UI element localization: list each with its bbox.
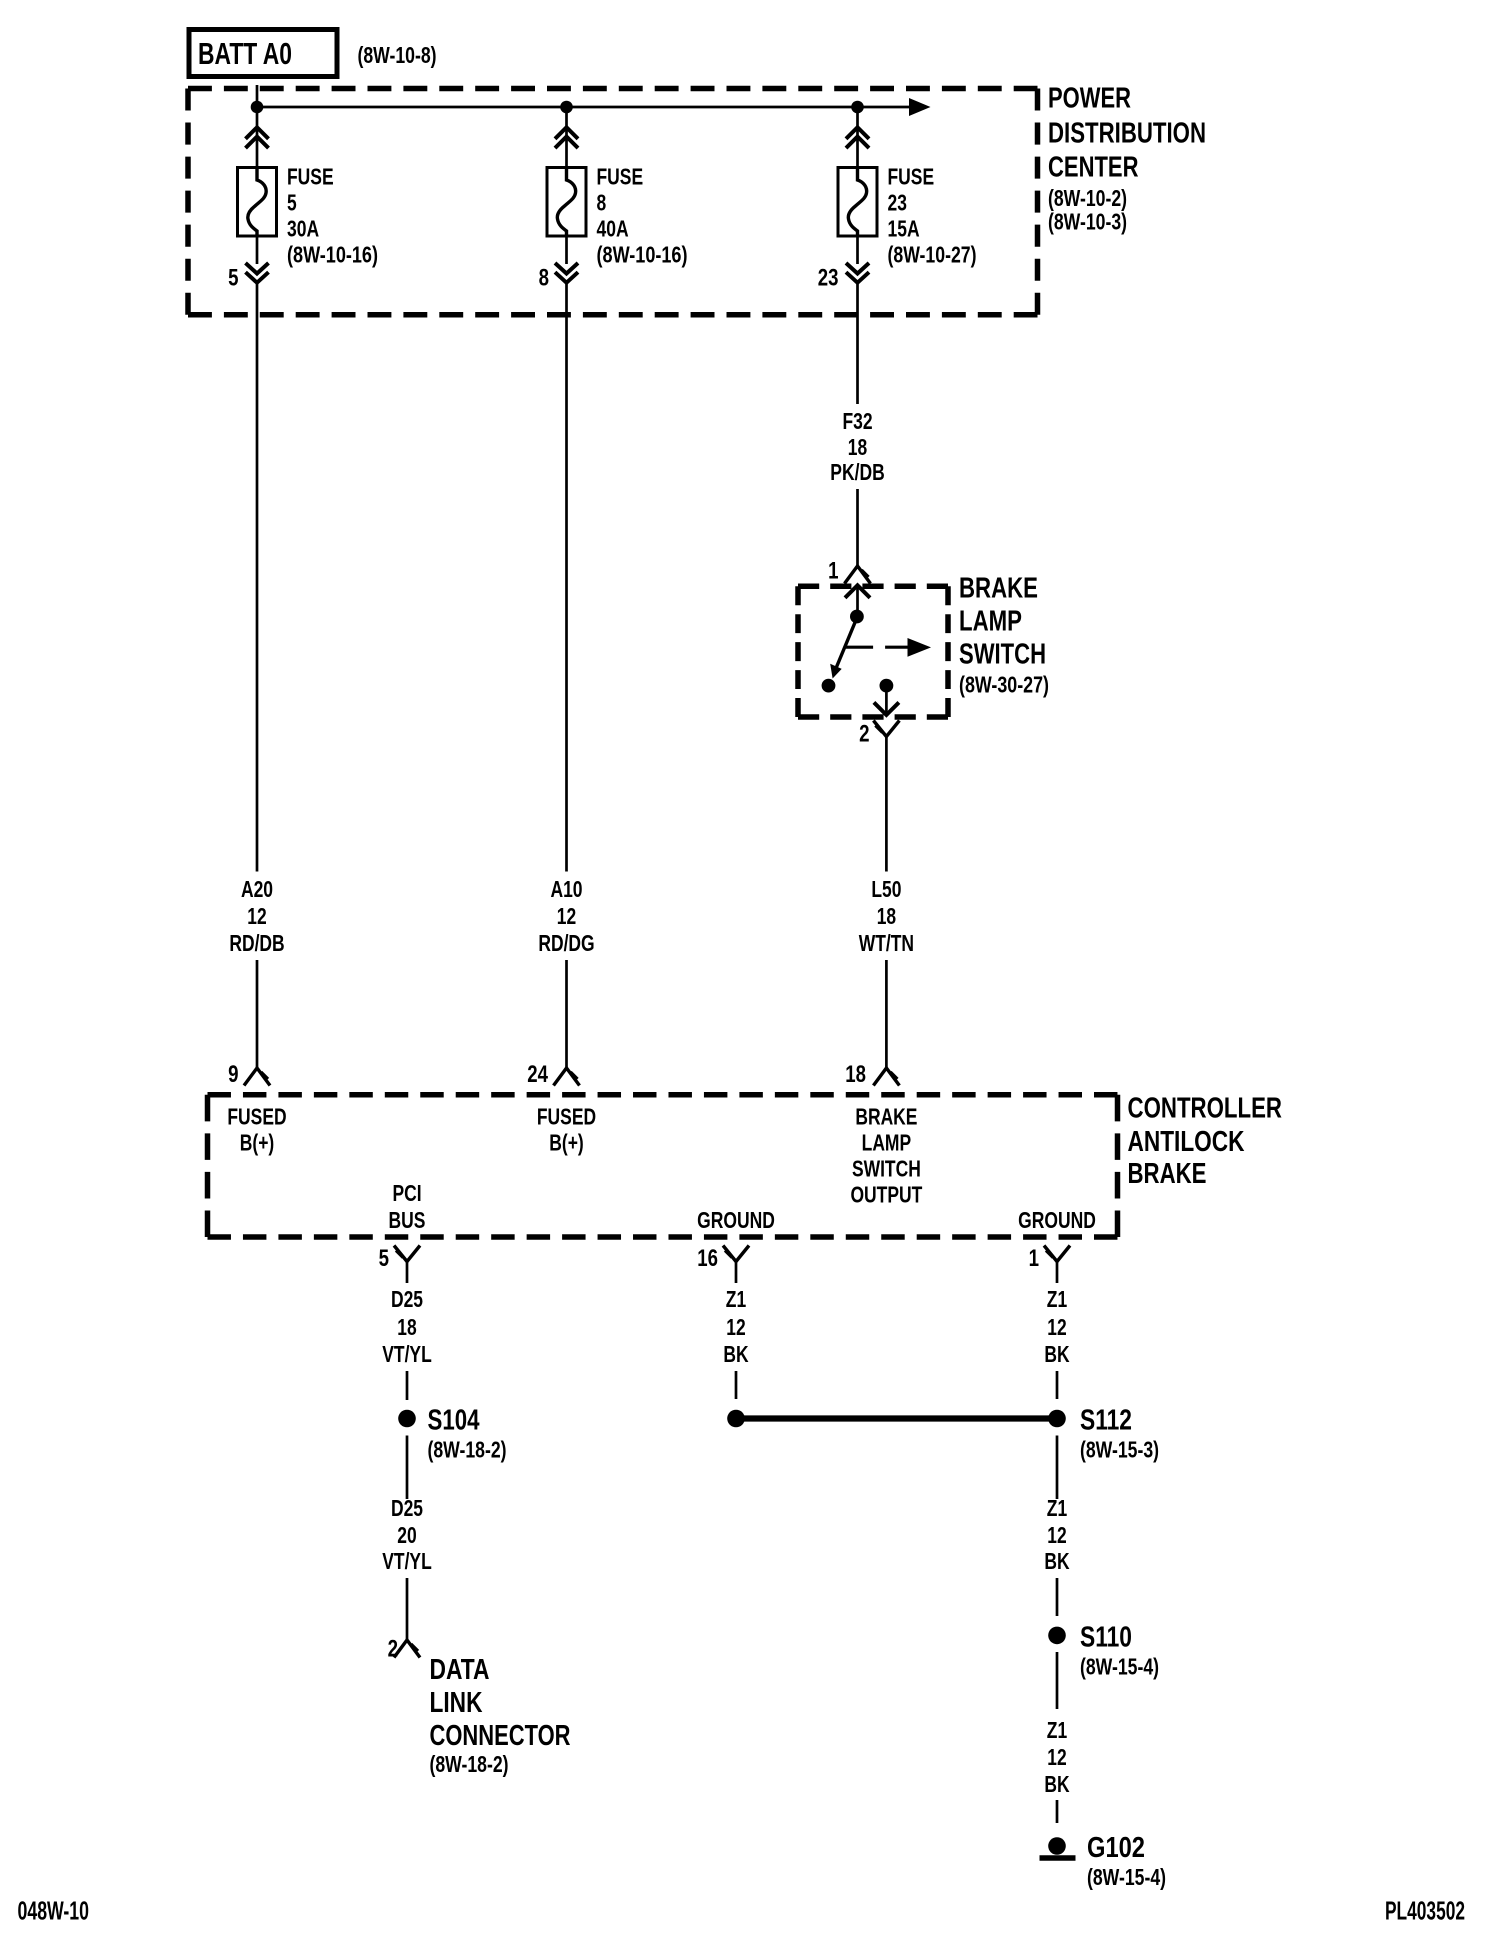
svg-text:1: 1 — [1029, 1245, 1039, 1272]
pin number 16 — [697, 1245, 718, 1272]
splice S104 — [398, 1410, 416, 1428]
CAB internal label GROUND pin 16 — [697, 1207, 775, 1233]
pin 9 connector at CAB — [244, 1068, 270, 1086]
svg-text:40A: 40A — [597, 216, 629, 242]
svg-text:BUS: BUS — [389, 1207, 426, 1233]
brake lamp switch dashed box — [798, 586, 948, 717]
svg-text:CONNECTOR: CONNECTOR — [430, 1720, 571, 1752]
svg-text:CENTER: CENTER — [1048, 152, 1139, 184]
pin number 18 — [845, 1061, 866, 1088]
svg-text:BK: BK — [1044, 1341, 1069, 1367]
CAB internal label PCI BUS — [389, 1180, 426, 1233]
label G102 (8W-15-4) — [1087, 1832, 1166, 1890]
svg-text:20: 20 — [397, 1522, 416, 1548]
wire Z1 to splice S110 — [1056, 1578, 1059, 1616]
svg-text:5: 5 — [287, 190, 297, 216]
svg-text:B(+): B(+) — [549, 1130, 584, 1156]
svg-text:(8W-18-2): (8W-18-2) — [430, 1751, 509, 1777]
svg-text:DISTRIBUTION: DISTRIBUTION — [1048, 118, 1206, 150]
wire F32 to brake lamp switch pin 1 — [856, 489, 859, 566]
pin 18 connector at CAB — [873, 1068, 899, 1086]
label FUSE 5 30A (8W-10-16) — [287, 164, 378, 268]
svg-text:8: 8 — [539, 265, 549, 292]
svg-text:DATA: DATA — [430, 1654, 490, 1686]
svg-text:5: 5 — [379, 1245, 389, 1272]
pin number 1 — [828, 558, 838, 585]
svg-text:8: 8 — [597, 190, 607, 216]
label FUSE 23 15A (8W-10-27) — [888, 164, 977, 268]
svg-text:B(+): B(+) — [240, 1130, 275, 1156]
svg-text:23: 23 — [888, 190, 907, 216]
wire Z1 to ground G102 — [1056, 1800, 1059, 1823]
pin 1 connector at brake lamp switch — [845, 566, 871, 584]
svg-text:12: 12 — [726, 1314, 745, 1340]
svg-text:D25: D25 — [391, 1495, 423, 1521]
fuse 23 15A — [838, 167, 877, 237]
svg-text:(8W-18-2): (8W-18-2) — [428, 1437, 507, 1463]
wire Z1 pin 16 down to splice junction — [735, 1371, 738, 1399]
svg-text:BRAKE: BRAKE — [959, 573, 1038, 605]
ground jumper wire to S112 — [736, 1415, 1057, 1421]
label FUSE 8 40A (8W-10-16) — [597, 164, 688, 268]
pin 1 connector below CAB — [1044, 1246, 1070, 1284]
pin number 24 — [527, 1061, 548, 1088]
wire label Z1 12 BK (pin 16) — [723, 1286, 748, 1367]
svg-text:G102: G102 — [1087, 1832, 1145, 1864]
svg-text:FUSE: FUSE — [597, 164, 644, 190]
reference (8W-10-8) — [358, 42, 437, 68]
splice S110 — [1048, 1627, 1066, 1645]
svg-text:BATT A0: BATT A0 — [198, 36, 292, 71]
CAB internal label GROUND pin 1 — [1018, 1207, 1096, 1233]
svg-text:12: 12 — [1047, 1744, 1066, 1770]
svg-text:(8W-15-4): (8W-15-4) — [1087, 1864, 1166, 1890]
svg-text:PL403502: PL403502 — [1385, 1898, 1465, 1926]
wire node to fuse 23 — [856, 107, 859, 167]
svg-text:RD/DB: RD/DB — [229, 930, 284, 956]
wire pin 2 to L50 label — [885, 737, 888, 872]
svg-text:(8W-10-3): (8W-10-3) — [1048, 209, 1127, 235]
svg-text:18: 18 — [845, 1061, 866, 1088]
pin number 8 — [539, 265, 549, 292]
svg-text:S112: S112 — [1080, 1405, 1132, 1437]
pin number 5 — [379, 1245, 389, 1272]
wire splice S104 to D25 20 label — [406, 1436, 409, 1500]
wire node to fuse 8 — [565, 107, 568, 167]
switch lower contact (NO) — [822, 679, 836, 693]
svg-text:BK: BK — [723, 1341, 748, 1367]
CAB internal label FUSED B(+) pin 24 — [537, 1104, 596, 1156]
ground G102 symbol — [1040, 1837, 1076, 1858]
svg-text:30A: 30A — [287, 216, 319, 242]
node at fuse 23 tap — [851, 101, 864, 114]
svg-text:LINK: LINK — [430, 1687, 483, 1719]
svg-text:23: 23 — [818, 265, 839, 292]
svg-text:(8W-10-16): (8W-10-16) — [597, 242, 688, 268]
node at fuse 5 tap — [251, 101, 264, 114]
svg-text:Z1: Z1 — [1047, 1286, 1068, 1312]
svg-text:(8W-10-8): (8W-10-8) — [358, 42, 437, 68]
svg-text:LAMP: LAMP — [862, 1130, 912, 1156]
fuse 8 40A — [547, 167, 586, 237]
pin number 5 — [228, 265, 238, 292]
wire label D25 18 VT/YL — [382, 1286, 432, 1367]
wire pin 8 to CAB pin 24 (upper) — [565, 283, 568, 872]
pin number 2 — [859, 721, 869, 748]
svg-text:(8W-10-16): (8W-10-16) — [287, 242, 378, 268]
wire node to fuse 5 — [256, 107, 259, 167]
svg-text:PCI: PCI — [392, 1180, 421, 1206]
svg-text:12: 12 — [1047, 1522, 1066, 1548]
switch actuator arrow — [845, 638, 931, 657]
svg-text:RD/DG: RD/DG — [538, 930, 594, 956]
svg-text:048W-10: 048W-10 — [18, 1898, 90, 1926]
wire label L50 18 WT/TN — [859, 876, 914, 956]
sheet number 048W-10 — [18, 1898, 90, 1926]
wire output contact to pin 2 — [885, 686, 888, 715]
fuse 5 30A — [238, 167, 277, 237]
svg-text:(8W-10-2): (8W-10-2) — [1048, 185, 1127, 211]
pin 5 connector below CAB — [394, 1246, 420, 1284]
svg-text:VT/YL: VT/YL — [382, 1548, 432, 1574]
pin 1 male pin (chevron) at switch boundary — [845, 585, 870, 598]
svg-text:(8W-15-3): (8W-15-3) — [1080, 1437, 1159, 1463]
svg-text:24: 24 — [527, 1061, 548, 1088]
power distribution center dashed box — [188, 89, 1038, 315]
pin 8 male pins (double chevron down) — [555, 263, 578, 283]
battery feed terminal BATT A0 — [189, 30, 337, 77]
svg-text:1: 1 — [828, 558, 838, 585]
pin number 23 — [818, 265, 839, 292]
CAB internal label BRAKE LAMP SWITCH OUTPUT — [850, 1104, 922, 1208]
svg-text:SWITCH: SWITCH — [852, 1156, 921, 1182]
svg-text:16: 16 — [697, 1245, 718, 1272]
male pins (double chevron) above fuse 23 — [846, 127, 869, 148]
svg-text:12: 12 — [247, 903, 266, 929]
wire L50 to CAB pin 18 — [885, 960, 888, 1068]
svg-text:BK: BK — [1044, 1548, 1069, 1574]
wire S112 to Z1 label (middle) — [1056, 1436, 1059, 1500]
svg-text:GROUND: GROUND — [1018, 1207, 1096, 1233]
svg-text:12: 12 — [1047, 1314, 1066, 1340]
svg-text:BK: BK — [1044, 1771, 1069, 1797]
svg-text:ANTILOCK: ANTILOCK — [1128, 1126, 1245, 1158]
svg-text:Z1: Z1 — [1047, 1495, 1068, 1521]
svg-text:A10: A10 — [550, 876, 582, 902]
label S112 (8W-15-3) — [1080, 1405, 1159, 1463]
wire label Z1 12 BK (S112 to S110) — [1044, 1495, 1069, 1574]
label CONTROLLER ANTILOCK BRAKE — [1128, 1093, 1283, 1191]
pin 23 male pins (double chevron down) — [846, 263, 869, 283]
wire label A20 12 RD/DB — [229, 876, 284, 956]
svg-text:FUSED: FUSED — [227, 1104, 286, 1130]
switch output contact — [880, 679, 894, 693]
svg-text:VT/YL: VT/YL — [382, 1341, 432, 1367]
wire label Z1 12 BK (pin 1) — [1044, 1286, 1069, 1367]
pin number 2 — [388, 1636, 398, 1663]
wire fuse 23 to pin 23 — [856, 236, 859, 264]
svg-text:18: 18 — [848, 434, 868, 460]
svg-text:D25: D25 — [391, 1286, 423, 1312]
switch movable lever with arrowhead — [830, 621, 856, 679]
svg-text:S110: S110 — [1080, 1622, 1132, 1654]
switch common contact — [850, 610, 864, 624]
CAB internal label FUSED B(+) pin 9 — [227, 1104, 286, 1156]
svg-text:FUSE: FUSE — [287, 164, 334, 190]
label BRAKE LAMP SWITCH — [959, 573, 1049, 698]
splice S112 — [1048, 1410, 1066, 1428]
svg-text:Z1: Z1 — [1047, 1717, 1068, 1743]
bus wire B+ — [257, 106, 910, 109]
pin number 9 — [228, 1061, 238, 1088]
node at fuse 8 tap — [560, 101, 573, 114]
svg-text:SWITCH: SWITCH — [959, 639, 1046, 671]
label DATA LINK CONNECTOR — [430, 1654, 571, 1777]
wire label D25 20 VT/YL — [382, 1495, 432, 1574]
label POWER DISTRIBUTION CENTER — [1048, 83, 1206, 235]
svg-text:LAMP: LAMP — [959, 606, 1022, 638]
wire label F32 18 PK/DB — [830, 408, 884, 485]
male pins (double chevron) above fuse 5 — [246, 127, 269, 148]
controller antilock brake dashed box — [208, 1095, 1118, 1237]
wire fuse 8 to pin 8 — [565, 236, 568, 264]
svg-text:CONTROLLER: CONTROLLER — [1128, 1093, 1283, 1125]
wire label A10 12 RD/DG — [538, 876, 594, 956]
svg-text:PK/DB: PK/DB — [830, 459, 884, 485]
svg-text:Z1: Z1 — [726, 1286, 747, 1312]
junction node on ground jumper — [727, 1410, 745, 1428]
bus arrow (feed continues) — [909, 98, 931, 116]
svg-text:2: 2 — [859, 721, 869, 748]
pin 16 connector below CAB — [723, 1246, 749, 1284]
svg-text:(8W-30-27): (8W-30-27) — [959, 672, 1049, 698]
wire pin 23 to F32 label — [856, 283, 859, 404]
svg-text:(8W-15-4): (8W-15-4) — [1080, 1654, 1159, 1680]
svg-text:BRAKE: BRAKE — [1128, 1158, 1207, 1190]
svg-text:FUSE: FUSE — [888, 164, 935, 190]
wire pin 5 to CAB pin 9 (upper) — [256, 283, 259, 872]
wire S110 to Z1 label (lower) — [1056, 1652, 1059, 1709]
svg-text:9: 9 — [228, 1061, 238, 1088]
wire pin 8 to CAB pin 24 (lower) — [565, 960, 568, 1068]
svg-text:GROUND: GROUND — [697, 1207, 775, 1233]
svg-text:5: 5 — [228, 265, 238, 292]
wire from BATT A0 to bus — [256, 85, 259, 107]
wire pin 5 to CAB pin 9 (lower) — [256, 960, 259, 1068]
wire Z1 pin 1 to splice S112 — [1056, 1371, 1059, 1399]
svg-text:L50: L50 — [871, 876, 901, 902]
svg-text:S104: S104 — [428, 1405, 480, 1437]
svg-text:A20: A20 — [241, 876, 273, 902]
wire pin 1 to switch common contact — [856, 585, 859, 612]
pin 24 connector at CAB — [554, 1068, 580, 1086]
svg-text:2: 2 — [388, 1636, 398, 1663]
male pins (double chevron) above fuse 8 — [555, 127, 578, 148]
svg-text:OUTPUT: OUTPUT — [850, 1182, 922, 1208]
svg-text:12: 12 — [557, 903, 576, 929]
pin 5 male pins (double chevron down) — [246, 263, 269, 283]
wire D25 20 to data link connector — [406, 1578, 409, 1640]
pin 2 connector at data link connector — [394, 1640, 420, 1658]
label S104 (8W-18-2) — [428, 1405, 507, 1463]
svg-text:F32: F32 — [842, 408, 872, 434]
svg-text:BRAKE: BRAKE — [855, 1104, 917, 1130]
pin number 1 — [1029, 1245, 1039, 1272]
pin 2 connector below switch — [873, 721, 899, 737]
label S110 (8W-15-4) — [1080, 1622, 1159, 1680]
svg-text:POWER: POWER — [1048, 83, 1131, 115]
svg-text:15A: 15A — [888, 216, 920, 242]
plate number PL403502 — [1385, 1898, 1465, 1926]
pin 2 male pin (chevron) at switch boundary — [874, 702, 899, 715]
wire label Z1 12 BK (S110 to G102) — [1044, 1717, 1069, 1797]
svg-text:18: 18 — [397, 1314, 417, 1340]
svg-text:(8W-10-27): (8W-10-27) — [888, 242, 977, 268]
wire fuse 5 to pin 5 — [256, 236, 259, 264]
wire D25 18 to splice S104 — [406, 1371, 409, 1400]
svg-text:WT/TN: WT/TN — [859, 930, 914, 956]
svg-text:18: 18 — [877, 903, 897, 929]
svg-text:FUSED: FUSED — [537, 1104, 596, 1130]
